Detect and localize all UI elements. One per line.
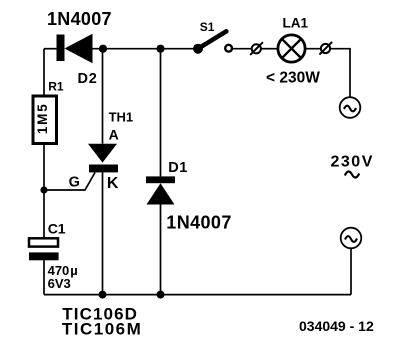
svg-text:034049 - 12: 034049 - 12 xyxy=(299,318,374,334)
svg-text:6V3: 6V3 xyxy=(48,276,71,291)
svg-text:C1: C1 xyxy=(48,221,66,237)
svg-text:LA1: LA1 xyxy=(283,16,309,31)
svg-text:G: G xyxy=(69,175,80,191)
svg-text:TIC106M: TIC106M xyxy=(62,319,142,338)
svg-text:230V: 230V xyxy=(331,153,374,170)
svg-text:A: A xyxy=(109,126,119,142)
svg-text:D2: D2 xyxy=(78,71,98,87)
svg-text:D1: D1 xyxy=(168,160,188,176)
svg-text:S1: S1 xyxy=(200,20,215,34)
svg-text:R1: R1 xyxy=(48,80,64,94)
svg-text:< 230W: < 230W xyxy=(266,69,320,86)
svg-text:1M5: 1M5 xyxy=(35,102,50,134)
svg-text:1N4007: 1N4007 xyxy=(47,9,112,29)
svg-text:TH1: TH1 xyxy=(109,110,134,125)
svg-text:K: K xyxy=(107,175,119,192)
svg-text:1N4007: 1N4007 xyxy=(166,212,231,232)
